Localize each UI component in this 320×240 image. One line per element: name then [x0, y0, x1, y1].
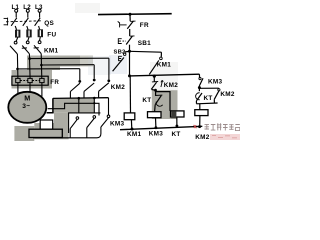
svg-text:SB1: SB1 [138, 40, 151, 47]
svg-text:L3: L3 [35, 4, 43, 11]
svg-text:FR: FR [50, 79, 59, 86]
svg-text:KM1: KM1 [157, 61, 171, 68]
svg-text:KM1: KM1 [127, 131, 141, 138]
svg-text:KT: KT [142, 97, 151, 104]
svg-text:SB2: SB2 [114, 50, 126, 56]
svg-text:L2: L2 [23, 4, 31, 11]
svg-text:KM3: KM3 [149, 131, 163, 138]
svg-text:KM2: KM2 [220, 91, 234, 98]
svg-text:FU: FU [47, 32, 56, 39]
svg-text:KM3: KM3 [110, 120, 124, 127]
svg-text:KM2: KM2 [164, 82, 178, 89]
svg-text:KM2: KM2 [195, 134, 209, 141]
svg-text:QS: QS [44, 20, 54, 27]
svg-text:KM1: KM1 [44, 48, 58, 55]
svg-text:KM2: KM2 [111, 84, 125, 91]
svg-text:M: M [24, 94, 30, 103]
svg-text:3~: 3~ [22, 103, 30, 110]
svg-text:KT: KT [172, 131, 181, 138]
svg-text:KT: KT [204, 95, 213, 102]
svg-text:FR: FR [140, 22, 149, 29]
svg-text:KM3: KM3 [208, 79, 222, 86]
svg-text:L1: L1 [12, 4, 20, 11]
